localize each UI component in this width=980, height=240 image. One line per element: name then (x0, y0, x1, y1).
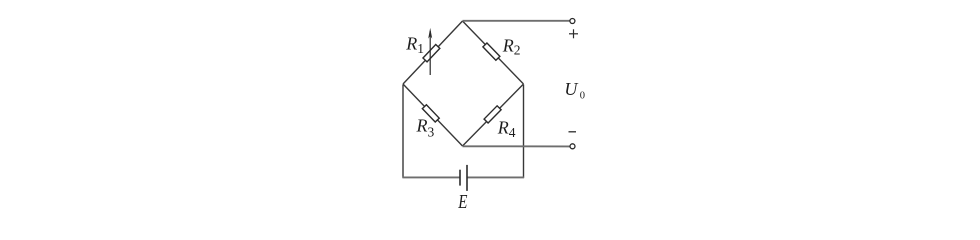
battery E positive plate (long) (466, 165, 468, 191)
minus sign label (569, 131, 577, 133)
wire: bottom rail left segment to battery (402, 176, 460, 178)
wire: top output lead from node A to + terminal (463, 20, 571, 22)
svg-text:R1: R1 (405, 34, 424, 56)
svg-text:R4: R4 (497, 118, 516, 140)
wire: bridge edge top-left (node A to node D) (403, 21, 463, 84)
resistor R2 body (upper-right arm) (483, 43, 500, 60)
svg-text:U0: U0 (564, 79, 585, 102)
wire: bottom output lead from node C to - terminal (463, 145, 571, 147)
wire: left branch node D down to battery rail (402, 85, 404, 178)
resistor R3 body (lower-left arm) (422, 105, 439, 122)
resistor R4 body (lower-right arm) (484, 106, 501, 123)
wire: bridge edge bottom-right (node B to node C) (463, 84, 524, 146)
wire: right branch node B down to battery rail (523, 85, 525, 178)
wire: bridge edge top-right (node A to node B) (463, 21, 524, 84)
terminal - (open circle, output negative) (570, 144, 575, 149)
terminal + (open circle, output positive) (570, 19, 575, 24)
battery E negative plate (short) (459, 170, 461, 186)
plus sign label (569, 29, 578, 38)
arrow through R1 (variable indicator) (428, 28, 432, 75)
svg-text:R2: R2 (502, 35, 521, 57)
resistor R1 body (strain gauge, upper-left arm) (423, 45, 440, 62)
wire: bridge edge bottom-left (node D to node C) (403, 84, 463, 146)
wire: bottom rail right segment from battery (467, 176, 524, 178)
svg-text:E: E (457, 192, 467, 213)
